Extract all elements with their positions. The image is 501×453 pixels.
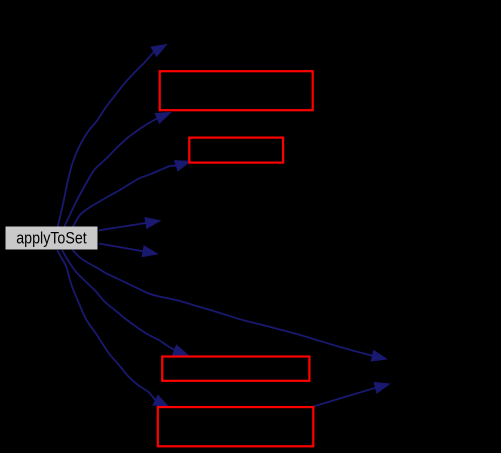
box2 (red truncated node, 1-line) (189, 138, 283, 163)
node applyToSet (current function, grey) (6, 227, 98, 250)
edge box4->node6 (313, 383, 389, 407)
edge applyToSet->node6 (far right, invisible) (73, 250, 387, 361)
edge applyToSet->node5 (invisible) (99, 244, 157, 257)
svg-text:applyToSet: applyToSet (16, 230, 87, 248)
edge applyToSet->box2 (73, 161, 190, 227)
box1 (red truncated node, 2-line) (160, 71, 313, 110)
edge applyToSet->box4 (57, 250, 168, 407)
edge applyToSet->box3 (62, 250, 188, 355)
box4 (red truncated node, 2-line) (158, 407, 313, 446)
box3 (red truncated node, 1-line) (162, 357, 309, 381)
edge applyToSet->box1 (64, 113, 170, 227)
edge applyToSet->node1 (top, invisible) (58, 45, 167, 227)
edge applyToSet->node4 (invisible) (99, 218, 160, 231)
